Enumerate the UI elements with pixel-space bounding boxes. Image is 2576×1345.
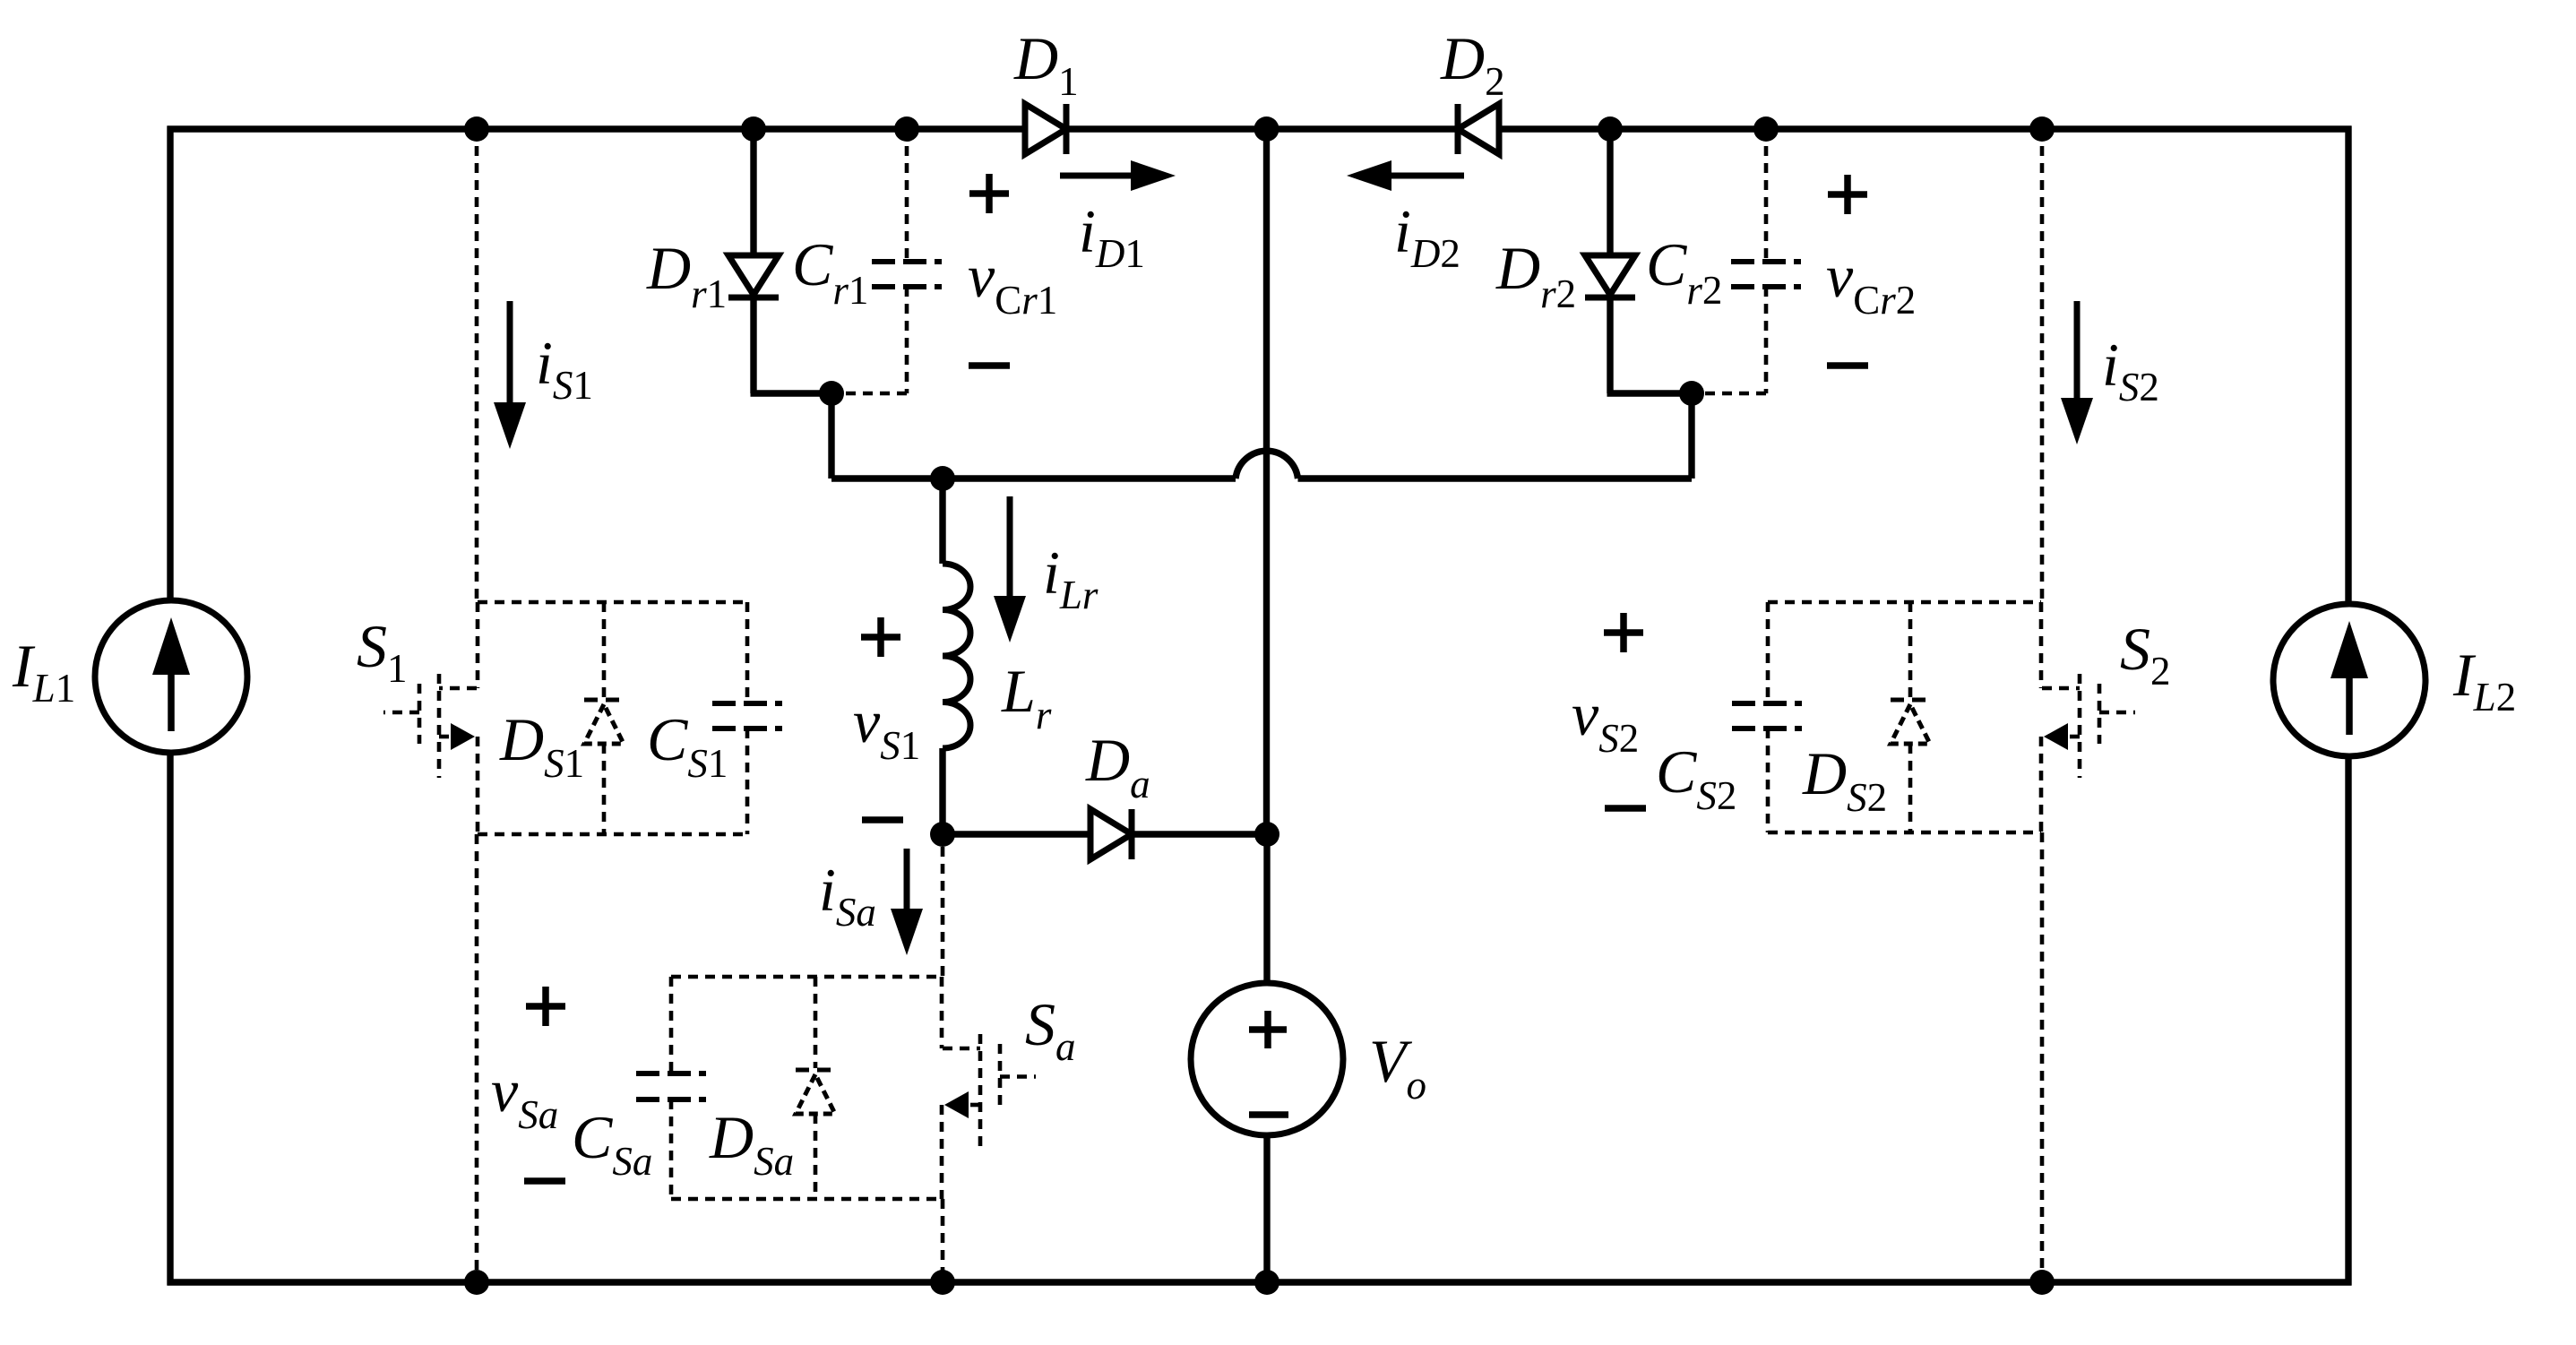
label - vS2 xyxy=(1605,805,1646,812)
label iS1 xyxy=(536,329,593,408)
wire Vo to bottom rail xyxy=(1263,1135,1270,1282)
wire S2 source to bottom rail dashed xyxy=(2040,832,2045,1282)
label IL2 xyxy=(2452,641,2516,720)
arrow iS2 xyxy=(2061,301,2093,444)
label Dr2 xyxy=(1495,234,1576,316)
wire Dr1 cathode down xyxy=(750,299,756,393)
wire Cr1 top dashed xyxy=(905,129,909,262)
wire node B left (resonant rail right) xyxy=(1298,475,1693,481)
voltage source Vo xyxy=(1191,983,1343,1135)
wire right lower xyxy=(2345,756,2351,1286)
arrow iD1 xyxy=(1060,160,1176,191)
label + vCr2 xyxy=(1828,175,1867,214)
label Cr1 xyxy=(792,230,868,313)
capacitor CS1 xyxy=(712,602,782,834)
node top Cr2 branch xyxy=(1753,116,1779,142)
label + vCr1 xyxy=(969,174,1009,213)
label vS2 xyxy=(1572,680,1639,761)
wire Dr2 to node B xyxy=(1607,390,1693,396)
transistor S1 (MOSFET) xyxy=(383,602,478,834)
capacitor CSa xyxy=(636,977,706,1199)
diode Dr1 xyxy=(728,255,779,297)
label + vS1 xyxy=(861,617,900,657)
wire bottom rail xyxy=(168,1279,2352,1285)
wire node B down xyxy=(1688,393,1694,479)
label CSa xyxy=(572,1103,652,1184)
wire Cr1 bottom dashed xyxy=(844,287,907,393)
wire Dr2 anode xyxy=(1607,129,1613,255)
wire left upper xyxy=(167,126,173,601)
wire center to Vo xyxy=(1263,834,1270,983)
wire node A to Lr node xyxy=(831,475,943,481)
wire Dr2 cathode down xyxy=(1607,299,1613,393)
label - vS1 xyxy=(862,816,903,823)
node bottom Sa branch xyxy=(930,1270,955,1295)
snubber box Sa bottom edge xyxy=(671,1197,942,1202)
wire center vertical xyxy=(1263,129,1270,834)
label - vSa xyxy=(524,1177,565,1185)
label vCr2 xyxy=(1826,242,1916,323)
node bottom Vo branch xyxy=(1254,1270,1279,1295)
label S2 xyxy=(2120,615,2171,694)
node B (Dr2-Cr2 junction) xyxy=(1679,381,1704,406)
label CS1 xyxy=(647,705,728,786)
label Lr xyxy=(1001,657,1052,737)
node top Dr1 branch xyxy=(741,116,766,142)
snubber box S1 bottom edge xyxy=(478,832,747,837)
label iLr xyxy=(1043,539,1098,617)
wire S1 source to bottom rail dashed xyxy=(475,834,479,1282)
label - vCr2 xyxy=(1827,362,1868,369)
wire Da anode xyxy=(943,831,1090,837)
wire right upper xyxy=(2345,126,2351,605)
arrow iLr xyxy=(994,496,1026,642)
node A (Dr1-Cr1 junction) xyxy=(819,381,844,406)
capacitor CS2 xyxy=(1732,602,1802,832)
wire hop over center branch xyxy=(1236,451,1298,479)
wire Cr2 top dashed xyxy=(1764,129,1769,262)
snubber box S1 top edge xyxy=(478,600,747,605)
node top Cr1 branch xyxy=(894,116,919,142)
wire left lower xyxy=(167,753,173,1286)
diode Dr2 xyxy=(1585,255,1635,297)
node Da anode junction xyxy=(930,822,955,847)
node top center (D1-D2 junction) xyxy=(1254,116,1279,142)
wire Sa drain dashed xyxy=(941,847,945,977)
label vSa xyxy=(491,1056,558,1137)
label iS2 xyxy=(2102,331,2159,410)
node top S1 branch xyxy=(464,116,489,142)
snubber box S2 top edge xyxy=(1768,600,2041,605)
wire Dr1 anode xyxy=(750,129,756,255)
wire Cr2 bottom dashed xyxy=(1704,287,1766,393)
label iSa xyxy=(819,856,876,935)
wire top rail middle segment xyxy=(1066,125,1458,132)
node Lr top xyxy=(930,466,955,491)
label Sa xyxy=(1025,990,1076,1069)
label Dr1 xyxy=(646,234,727,316)
label DS2 xyxy=(1802,739,1887,820)
wire Lr bottom lead xyxy=(939,748,945,834)
arrow iSa xyxy=(891,849,923,955)
label + vS2 xyxy=(1604,613,1643,652)
label vS1 xyxy=(853,687,920,768)
node Da cathode junction xyxy=(1254,822,1279,847)
arrow iS1 xyxy=(494,301,526,449)
label Vo xyxy=(1369,1027,1426,1108)
wire S2 drain dashed xyxy=(2040,129,2045,602)
current source IL1 xyxy=(95,600,247,753)
node bottom S2 branch xyxy=(2029,1270,2055,1295)
diode DS2 (body diode) xyxy=(1891,602,1930,832)
wire top rail left segment xyxy=(168,125,1026,132)
label DS1 xyxy=(499,705,584,786)
current source IL2 xyxy=(2273,604,2425,756)
diode Da xyxy=(1090,809,1132,859)
node bottom S1 branch xyxy=(464,1270,489,1295)
wire Sa source to bottom rail dashed xyxy=(941,1199,945,1282)
transistor S2 (MOSFET) xyxy=(2041,602,2135,832)
transistor Sa (MOSFET) xyxy=(942,977,1036,1199)
wire Lr top lead xyxy=(939,479,945,564)
label vCr1 xyxy=(968,242,1057,323)
node top S2 branch xyxy=(2029,116,2055,142)
wire resonant rail left segment xyxy=(943,475,1236,481)
label CS2 xyxy=(1656,737,1736,818)
label Da xyxy=(1085,726,1150,806)
arrow iD2 xyxy=(1347,160,1464,191)
wire node A down xyxy=(828,393,834,479)
diode DSa (body diode) xyxy=(796,977,835,1199)
snubber box S2 bottom edge xyxy=(1768,831,2041,835)
wire top rail right segment xyxy=(1499,125,2352,132)
label IL1 xyxy=(12,632,75,711)
capacitor Cr1 xyxy=(872,262,942,287)
label Cr2 xyxy=(1646,230,1722,313)
label D2 xyxy=(1440,24,1505,104)
node top Dr2 branch xyxy=(1598,116,1623,142)
label + vSa xyxy=(526,987,565,1026)
diode D2 xyxy=(1458,104,1499,154)
wire S1 drain dashed xyxy=(475,129,479,602)
label iD2 xyxy=(1394,197,1460,276)
wire Da cathode xyxy=(1132,831,1267,837)
label - vCr1 xyxy=(969,362,1010,369)
label S1 xyxy=(357,612,408,691)
diode DS1 (body diode) xyxy=(584,602,624,834)
capacitor Cr2 xyxy=(1731,262,1801,287)
wire Dr1 to node A xyxy=(751,390,832,396)
snubber box Sa top edge xyxy=(671,975,942,979)
label DSa xyxy=(709,1103,794,1184)
label iD1 xyxy=(1079,197,1145,276)
inductor Lr xyxy=(943,564,970,748)
diode D1 xyxy=(1025,104,1066,154)
label D1 xyxy=(1013,24,1079,104)
